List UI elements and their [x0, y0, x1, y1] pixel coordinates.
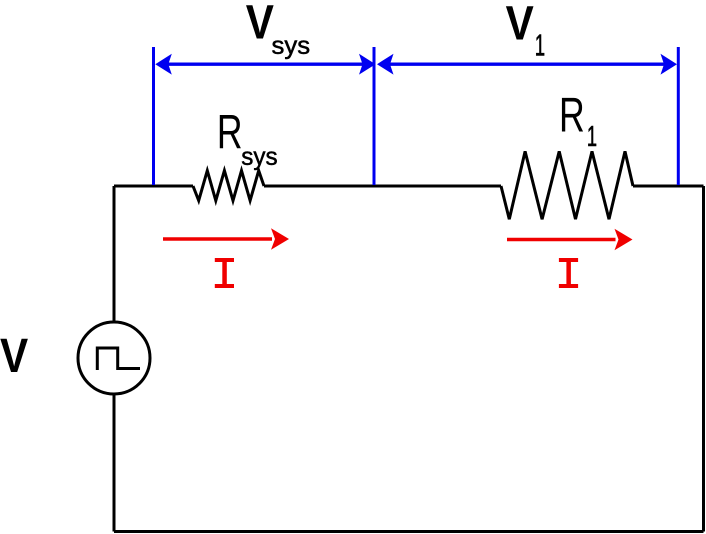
Vsys arrow head right	[359, 54, 376, 75]
svg-text:V: V	[0, 328, 28, 382]
source V (pulse source)	[78, 322, 150, 394]
svg-text:sys: sys	[241, 144, 277, 171]
node line left (blue)	[152, 47, 155, 185]
wire: right side	[702, 186, 705, 532]
wire: top middle segment	[264, 185, 501, 188]
wire: left upper segment	[113, 186, 116, 322]
resistor Rsys	[193, 171, 264, 201]
node line right (blue)	[677, 47, 680, 185]
svg-text:R: R	[559, 88, 585, 143]
node line middle (blue)	[373, 47, 376, 185]
svg-text:V: V	[246, 0, 274, 49]
resistor R1	[501, 151, 633, 219]
current arrow I (left) shaft	[163, 237, 272, 240]
pulse waveform symbol	[97, 348, 140, 370]
V1 arrow head right	[661, 54, 678, 75]
svg-text:sys: sys	[272, 33, 311, 61]
wire: bottom	[114, 530, 704, 533]
wire: left lower segment	[113, 394, 116, 532]
V1 arrow shaft	[389, 62, 665, 65]
svg-text:V: V	[506, 0, 534, 50]
V1 arrow head left	[377, 54, 394, 75]
svg-text:1: 1	[587, 121, 597, 153]
wire: top left segment	[114, 185, 193, 188]
current arrow I (right) head	[615, 229, 633, 251]
wire: top right segment	[633, 185, 704, 188]
svg-text:1: 1	[535, 29, 545, 63]
label I (left)	[215, 258, 234, 288]
Vsys arrow shaft	[167, 62, 363, 65]
Vsys arrow head left	[155, 54, 172, 75]
svg-text:R: R	[217, 105, 243, 158]
current arrow I (left) head	[271, 228, 289, 250]
label I (right)	[559, 258, 578, 288]
current arrow I (right) shaft	[507, 238, 616, 241]
